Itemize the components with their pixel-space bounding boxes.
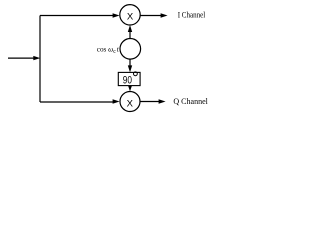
arrowhead: bottom output xyxy=(159,99,166,103)
phase shifter 90 deg box xyxy=(118,72,140,85)
wire: vertical bus xyxy=(39,16,41,103)
multiplier U1 (I channel mixer) xyxy=(120,5,140,25)
wire: top output line xyxy=(140,15,161,17)
svg-text:Q Channel: Q Channel xyxy=(173,97,208,106)
svg-text:cos ωct: cos ωct xyxy=(97,45,120,55)
wire: bottom branch horizontal xyxy=(40,101,113,103)
arrowhead: top output xyxy=(161,13,168,17)
arrowhead: down into bottom multiplier xyxy=(128,85,132,92)
wire: oscillator to 90 box xyxy=(129,59,131,67)
multiplier U2 (Q channel mixer) xyxy=(120,92,140,112)
arrowhead: input into junction xyxy=(33,56,40,60)
arrowhead: into top multiplier left xyxy=(113,13,120,17)
oscillator circle xyxy=(120,39,141,60)
svg-text:90: 90 xyxy=(123,75,132,87)
svg-text:X: X xyxy=(127,98,134,109)
wire: input horizontal line xyxy=(8,57,35,59)
arrowhead: oscillator up into top multiplier xyxy=(128,25,132,32)
wire: oscillator to top multiplier xyxy=(129,32,131,39)
arrowhead: down into 90 box xyxy=(128,65,132,72)
degree symbol xyxy=(134,72,138,76)
svg-text:X: X xyxy=(127,12,134,23)
svg-text:I Channel: I Channel xyxy=(178,11,206,20)
wire: top branch horizontal xyxy=(40,15,113,17)
wire: 90 box to bottom multiplier xyxy=(129,86,131,88)
wire: bottom output line xyxy=(140,101,159,103)
arrowhead: into bottom multiplier left xyxy=(113,99,120,103)
